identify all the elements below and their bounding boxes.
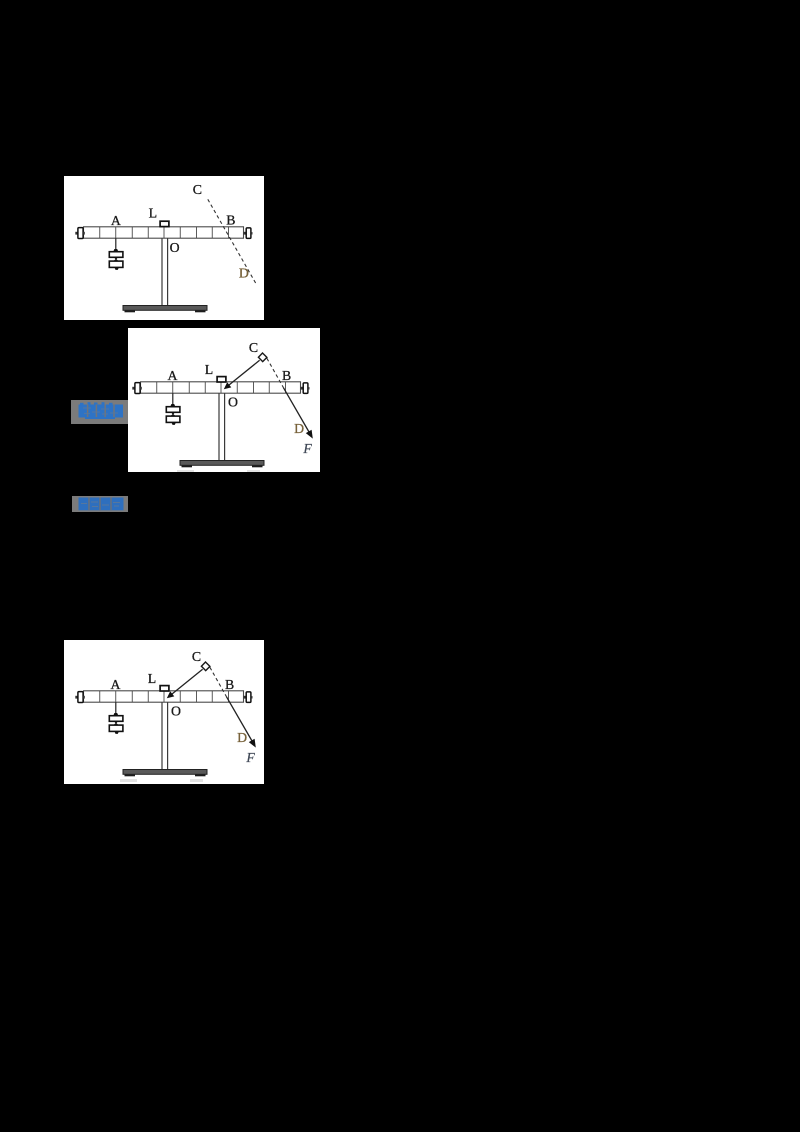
svg-text:F: F <box>245 750 255 765</box>
force F arrow from B through D <box>283 387 309 433</box>
svg-text:D: D <box>294 421 304 436</box>
string at A <box>115 238 117 249</box>
left balancing nut <box>132 387 135 390</box>
weight bottom knob <box>172 422 176 425</box>
arrow from C square to beam centre <box>171 669 203 694</box>
small rotated square at C <box>201 662 210 671</box>
svg-text:B: B <box>225 677 234 692</box>
weight 1 <box>166 407 180 413</box>
svg-text:C: C <box>249 340 258 355</box>
right balancing nut <box>301 387 304 390</box>
stand base <box>125 774 136 777</box>
figure box 2 (lever with force arrows) <box>128 328 320 472</box>
stand base <box>182 465 193 468</box>
svg-text:A: A <box>111 213 121 228</box>
string at A <box>172 393 174 404</box>
weight 2 <box>109 725 123 731</box>
svg-text:L: L <box>148 671 156 686</box>
left balancing nut <box>75 232 78 235</box>
svg-text:A: A <box>111 677 121 692</box>
weight hook top <box>113 249 118 252</box>
weight hook top <box>170 404 175 407</box>
rider L on beam <box>217 377 226 382</box>
arrow from C square to beam centre <box>228 360 260 385</box>
dashed line C to D <box>208 199 256 283</box>
right balancing nut <box>244 232 247 235</box>
stand post <box>162 238 168 306</box>
weight connector <box>113 721 118 725</box>
answer tag 1 (gray box, blue text) <box>71 400 128 424</box>
beam ruler <box>84 227 244 238</box>
weight 2 <box>166 416 180 422</box>
dashed line C to B <box>267 358 283 387</box>
right balancing nut <box>244 696 247 699</box>
svg-text:C: C <box>192 649 201 664</box>
svg-text:L: L <box>149 205 157 220</box>
beam tick marks <box>100 691 229 702</box>
weight bottom knob <box>115 731 119 734</box>
svg-text:D: D <box>239 266 249 281</box>
weight connector <box>113 257 118 261</box>
figure box 3 (lever with force arrows) <box>64 640 264 784</box>
stand post <box>219 393 225 461</box>
small rotated square at C <box>258 353 267 362</box>
faint shadow strips below base <box>177 470 194 473</box>
weight 2 <box>109 261 123 267</box>
svg-text:O: O <box>170 240 180 255</box>
rider L on beam <box>160 686 169 691</box>
svg-text:C: C <box>193 182 202 197</box>
left balancing nut <box>75 696 78 699</box>
rider L on beam <box>160 221 169 226</box>
beam ruler <box>141 382 301 393</box>
dashed line C to B <box>210 667 226 696</box>
stand base <box>125 310 136 313</box>
string at A <box>115 702 117 713</box>
stand post <box>162 702 168 770</box>
force F arrow from B through D <box>226 696 252 742</box>
svg-text:O: O <box>171 704 181 719</box>
weight connector <box>170 412 175 416</box>
beam tick marks <box>157 382 286 393</box>
weight hook top <box>113 713 118 716</box>
svg-text:A: A <box>168 368 178 383</box>
faint shadow strips below base <box>120 779 137 782</box>
weight 1 <box>109 716 123 722</box>
beam tick marks <box>100 227 229 238</box>
weight bottom knob <box>115 267 119 270</box>
answer tag 2 (gray box, blue text) <box>72 496 128 512</box>
svg-text:O: O <box>228 395 238 410</box>
figure box 1 (balanced lever with dashed CD line) <box>64 176 264 320</box>
beam ruler <box>84 691 244 702</box>
svg-text:B: B <box>226 213 235 228</box>
svg-text:D: D <box>237 730 247 745</box>
svg-text:B: B <box>282 368 291 383</box>
weight 1 <box>109 252 123 258</box>
svg-text:L: L <box>205 362 213 377</box>
svg-text:F: F <box>302 441 312 456</box>
